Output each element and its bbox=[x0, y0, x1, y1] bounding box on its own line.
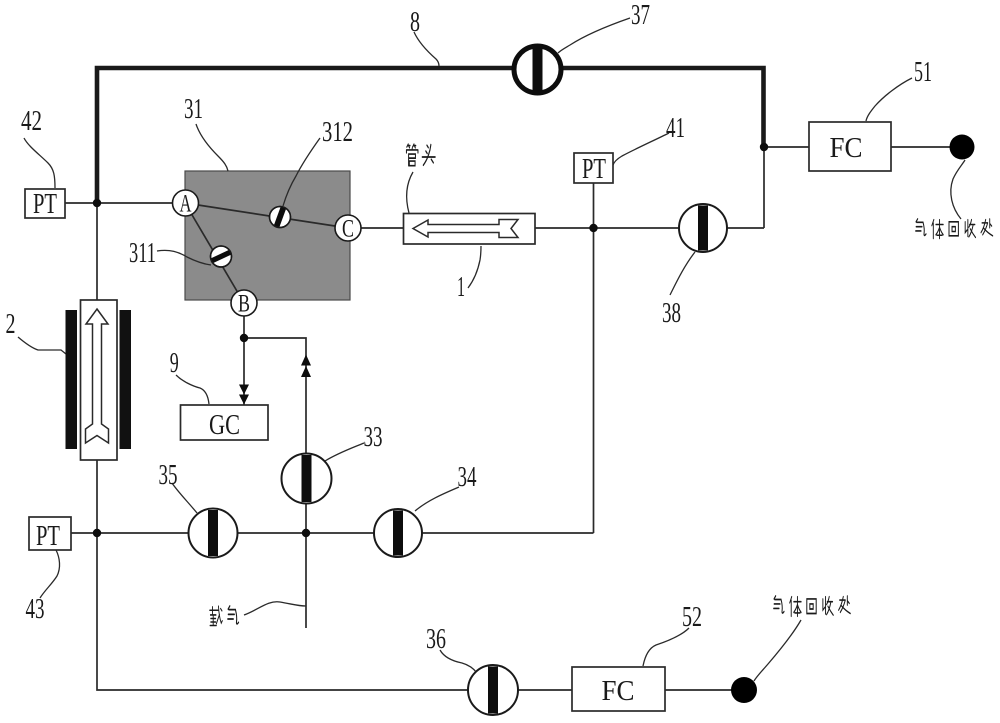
svg-text:A: A bbox=[180, 191, 192, 218]
svg-text:36: 36 bbox=[426, 623, 446, 655]
svg-text:37: 37 bbox=[631, 0, 650, 31]
svg-text:41: 41 bbox=[666, 112, 685, 144]
svg-text:34: 34 bbox=[458, 461, 477, 493]
svg-text:311: 311 bbox=[129, 237, 156, 269]
svg-text:PT: PT bbox=[36, 521, 60, 552]
svg-text:B: B bbox=[238, 291, 250, 318]
svg-text:2: 2 bbox=[6, 308, 16, 340]
svg-text:51: 51 bbox=[914, 56, 932, 88]
svg-text:52: 52 bbox=[682, 601, 702, 633]
svg-text:312: 312 bbox=[322, 116, 353, 148]
svg-text:8: 8 bbox=[410, 6, 420, 38]
svg-text:1: 1 bbox=[457, 271, 465, 303]
svg-text:PT: PT bbox=[33, 189, 57, 220]
svg-text:GC: GC bbox=[209, 410, 240, 441]
svg-text:38: 38 bbox=[662, 297, 681, 329]
svg-text:9: 9 bbox=[170, 347, 179, 379]
svg-text:PT: PT bbox=[582, 154, 606, 185]
svg-text:35: 35 bbox=[159, 459, 178, 491]
svg-text:FC: FC bbox=[830, 133, 863, 164]
svg-text:FC: FC bbox=[602, 676, 635, 707]
svg-text:33: 33 bbox=[364, 421, 383, 453]
svg-text:C: C bbox=[342, 216, 354, 243]
svg-text:42: 42 bbox=[21, 105, 42, 137]
svg-text:43: 43 bbox=[26, 593, 45, 625]
svg-text:31: 31 bbox=[184, 93, 203, 125]
